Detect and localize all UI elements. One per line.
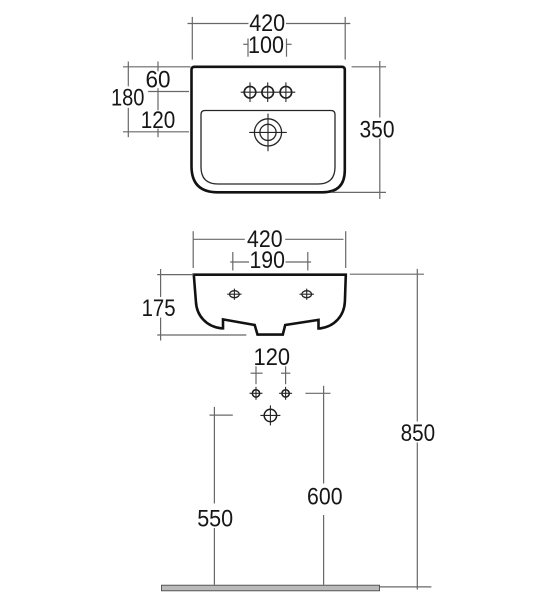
dimension line 420 (front) — [193, 231, 346, 268]
faucet hole left — [244, 82, 256, 102]
supply hole left drill mark — [250, 387, 263, 400]
dimension line 60 (holes offset) — [148, 91, 189, 93]
basin outer rim (plan view) — [192, 67, 345, 193]
dimension line 420 (plan top) — [188, 17, 351, 60]
dimension line 550 (waste height) — [210, 407, 233, 585]
faucet holes centerline — [241, 91, 296, 93]
svg-text:100: 100 — [248, 32, 284, 59]
extension line drain center (plan left) — [123, 131, 189, 133]
svg-text:550: 550 — [197, 505, 233, 532]
dimension line 350 (plan right) — [331, 61, 386, 199]
svg-text:350: 350 — [360, 116, 395, 143]
mounting hole left (front) — [227, 289, 241, 300]
svg-text:180: 180 — [111, 84, 145, 111]
svg-text:120: 120 — [254, 344, 291, 371]
basin inner bowl (plan view) — [201, 111, 335, 185]
svg-text:175: 175 — [142, 295, 176, 322]
dimension line 190 (mounting holes) — [230, 252, 311, 271]
faucet hole center — [262, 82, 274, 102]
svg-text:600: 600 — [307, 484, 343, 511]
drain inner circle — [260, 124, 276, 140]
dimension 175 (front height) — [157, 269, 246, 341]
supply hole right drill mark — [279, 387, 292, 400]
extension vertical 60/120 — [157, 62, 159, 138]
floor line — [162, 585, 380, 591]
svg-text:850: 850 — [401, 420, 436, 447]
dimension line 100 (faucet holes) — [243, 39, 291, 57]
basin outline (front view) — [194, 275, 346, 335]
extension line rim top (plan left) — [123, 66, 191, 68]
mounting hole right (front) — [300, 289, 314, 300]
svg-text:120: 120 — [141, 107, 176, 134]
dimension line 600 (supply height) — [305, 386, 330, 585]
svg-text:60: 60 — [146, 66, 171, 93]
extension vertical 180 — [127, 62, 129, 138]
dimension line 850 (rim height) — [350, 269, 432, 590]
faucet hole right — [280, 82, 292, 102]
drain cross — [249, 114, 287, 152]
dimension line 120 (supply holes) — [251, 366, 291, 384]
waste outlet drill mark — [260, 405, 280, 425]
drain outer circle — [254, 119, 281, 146]
svg-text:190: 190 — [249, 247, 285, 274]
